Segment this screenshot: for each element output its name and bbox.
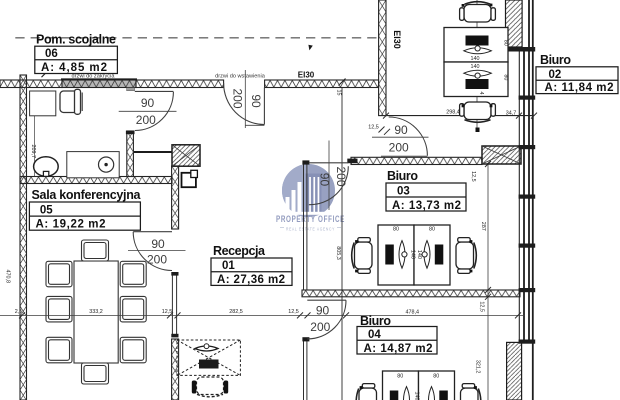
svg-text:A: 14,87 m2: A: 14,87 m2 bbox=[364, 343, 433, 355]
svg-text:333,2: 333,2 bbox=[89, 309, 103, 315]
svg-text:140: 140 bbox=[416, 250, 422, 259]
watermark logo PROPERTY OFFICE bbox=[276, 164, 345, 232]
dim ticks on main line bbox=[19, 312, 521, 318]
recepcja desk (dashed, to remove) bbox=[177, 340, 240, 375]
hatched column A (pom. socjalne) bbox=[172, 145, 200, 166]
svg-text:282,5: 282,5 bbox=[229, 309, 243, 315]
svg-text:Pom. scojalne: Pom. scojalne bbox=[36, 33, 116, 47]
svg-text:REAL ESTATE AGENCY: REAL ESTATE AGENCY bbox=[286, 227, 335, 232]
biuro02 desk pair bbox=[444, 28, 508, 63]
svg-text:drzwi do wstawienia: drzwi do wstawienia bbox=[215, 74, 266, 80]
ticks on biuro02 dim bbox=[383, 113, 537, 119]
grey door tab bbox=[127, 88, 135, 91]
corridor top door leaf bbox=[309, 162, 349, 164]
svg-text:12,5: 12,5 bbox=[368, 125, 379, 131]
dim line 209,7 bbox=[34, 116, 36, 177]
dim line pom door bbox=[119, 110, 177, 112]
biuro03 chair left bbox=[352, 238, 372, 274]
left wall bbox=[20, 75, 27, 400]
pom. socjalne right wall bbox=[127, 131, 134, 177]
svg-text:470,8: 470,8 bbox=[4, 269, 10, 283]
svg-text:80: 80 bbox=[503, 74, 509, 80]
tick top-left corner bbox=[42, 71, 48, 77]
biuro02 chair top bbox=[460, 2, 496, 22]
room label biuro02 bbox=[536, 53, 618, 94]
counter edge line (hall) bbox=[134, 151, 172, 153]
svg-text:200: 200 bbox=[389, 141, 409, 155]
svg-text:140: 140 bbox=[471, 64, 480, 70]
conference chairs top/bottom bbox=[82, 240, 109, 384]
svg-text:478,4: 478,4 bbox=[406, 310, 420, 316]
svg-text:287: 287 bbox=[480, 222, 486, 231]
hatched column D (bottom right) bbox=[507, 342, 522, 400]
biuro03 door ticks bbox=[379, 127, 391, 135]
svg-text:Biuro: Biuro bbox=[387, 169, 418, 183]
recepcja west wall upper bbox=[172, 166, 179, 229]
svg-text:04: 04 bbox=[368, 329, 381, 341]
top wall segment 4 bbox=[265, 80, 379, 88]
svg-text:A: 4,85 m2: A: 4,85 m2 bbox=[41, 62, 107, 74]
svg-text:200: 200 bbox=[310, 320, 330, 334]
conference chairs right bbox=[120, 261, 146, 363]
top wall segment 1 bbox=[0, 80, 62, 88]
glass partition left (sala/recepcja) bbox=[172, 275, 176, 335]
biuro04 monitors bbox=[390, 391, 399, 400]
recepcja chair (dashed) bbox=[197, 377, 224, 397]
svg-text:80: 80 bbox=[393, 226, 399, 232]
svg-text:01: 01 bbox=[222, 260, 235, 272]
svg-text:140: 140 bbox=[471, 56, 480, 62]
pom. socjalne bottom wall bbox=[20, 177, 172, 184]
pom. socjalne table bbox=[30, 91, 56, 116]
svg-text:209,7: 209,7 bbox=[30, 145, 36, 159]
desk dim texts biuro04 bbox=[397, 374, 439, 400]
main dim texts bbox=[15, 109, 517, 315]
biuro03 top wall bbox=[351, 157, 482, 164]
svg-text:EI30: EI30 bbox=[392, 30, 402, 49]
recepcja desk monitor bbox=[199, 360, 219, 369]
svg-text:EI30: EI30 bbox=[298, 71, 315, 80]
washbasin bbox=[34, 157, 59, 177]
biuro02 keyboards bbox=[464, 46, 492, 78]
svg-text:805,3: 805,3 bbox=[335, 246, 341, 260]
top door (drzwi do wstawienia): leaf bbox=[263, 88, 265, 125]
biuro02 chair bottom bbox=[460, 102, 496, 122]
trash bin (hall) bbox=[182, 173, 196, 187]
svg-text:Biuro: Biuro bbox=[540, 53, 571, 67]
biuro03 keyboards bbox=[399, 241, 430, 269]
svg-text:90: 90 bbox=[151, 237, 165, 251]
glass partition right lower bbox=[304, 339, 307, 400]
vertical wall/dim line x=342 bbox=[341, 88, 343, 400]
biuro04 door leaf bbox=[307, 299, 346, 301]
glass partition right (recepcja/biuro) upper bbox=[304, 165, 307, 291]
window mullions bbox=[506, 47, 536, 344]
svg-text:15: 15 bbox=[336, 90, 342, 96]
svg-text:drzwi do zakrycia: drzwi do zakrycia bbox=[72, 74, 116, 80]
biuro04 door arc bbox=[307, 300, 346, 339]
svg-text:4: 4 bbox=[478, 92, 484, 95]
room label pom. socjalne bbox=[35, 33, 118, 74]
dim line biuro03 door bbox=[372, 136, 429, 138]
svg-text:A: 19,22 m2: A: 19,22 m2 bbox=[36, 219, 106, 231]
svg-text:200: 200 bbox=[136, 113, 156, 127]
main horizontal dimension line bbox=[0, 314, 525, 316]
sala konferencyjna door leaf bbox=[133, 231, 172, 233]
svg-text:90: 90 bbox=[249, 94, 263, 108]
biuro03 door arc bbox=[389, 117, 428, 156]
pom. socjalne chair bbox=[60, 89, 82, 114]
dashed boundary line top bbox=[15, 37, 378, 39]
svg-text:80: 80 bbox=[433, 374, 439, 380]
chair caster nubs bbox=[355, 4, 492, 389]
biuro04 keyboards bbox=[404, 387, 435, 400]
svg-text:200: 200 bbox=[147, 253, 167, 267]
facade outer lines bbox=[528, 0, 530, 342]
biuro02 centerline bbox=[476, 0, 478, 128]
top wall segment 3 bbox=[136, 80, 224, 88]
sala konferencyjna door arc bbox=[133, 232, 172, 271]
biuro03 chair right bbox=[456, 238, 476, 274]
corridor top door arc bbox=[309, 166, 349, 205]
svg-text:12,5: 12,5 bbox=[162, 309, 173, 315]
svg-text:298,4: 298,4 bbox=[446, 109, 460, 115]
svg-text:200: 200 bbox=[334, 166, 348, 186]
svg-text:200: 200 bbox=[230, 88, 244, 108]
svg-text:A: 27,36 m2: A: 27,36 m2 bbox=[217, 274, 285, 286]
room label sala konferencyjna bbox=[29, 188, 141, 231]
top wall grey segment (covered door) bbox=[62, 80, 136, 88]
biuro03 door sill bbox=[381, 155, 427, 157]
conference chairs left bbox=[46, 261, 72, 363]
pom. socjalne door arc bbox=[135, 92, 174, 131]
vertical dimension line right (287 / 12,5 / 321,2) bbox=[487, 164, 489, 400]
north arrow mark bbox=[308, 45, 312, 51]
svg-text:Recepcja: Recepcja bbox=[213, 244, 266, 258]
biuro04 desk pair bbox=[383, 371, 419, 400]
desk dim texts biuro03 bbox=[393, 226, 435, 259]
biuro02 monitors bbox=[466, 36, 489, 46]
svg-text:A: 11,84 m2: A: 11,84 m2 bbox=[545, 82, 614, 94]
svg-text:90: 90 bbox=[141, 96, 155, 110]
recepcja desk keyboard bbox=[195, 346, 218, 351]
recepcja west wall lower bbox=[172, 339, 179, 400]
svg-text:05: 05 bbox=[40, 204, 53, 216]
svg-text:321,2: 321,2 bbox=[474, 360, 480, 374]
svg-text:A: 13,73 m2: A: 13,73 m2 bbox=[392, 200, 461, 212]
kitchen counter with sink bbox=[67, 152, 119, 178]
svg-text:140: 140 bbox=[414, 392, 420, 400]
svg-text:80: 80 bbox=[397, 374, 403, 380]
svg-text:12,5: 12,5 bbox=[479, 301, 485, 312]
biuro04 chair left bbox=[356, 384, 376, 400]
svg-text:Sala konferencyjna: Sala konferencyjna bbox=[32, 188, 142, 202]
dim line of corridor door bbox=[328, 141, 330, 211]
dim line of top door bbox=[244, 70, 246, 128]
svg-text:06: 06 bbox=[45, 48, 58, 60]
svg-text:34,7: 34,7 bbox=[506, 111, 517, 117]
svg-text:2,5: 2,5 bbox=[15, 309, 23, 315]
room label recepcja bbox=[211, 244, 292, 286]
window glazing lines east facade bbox=[518, 47, 520, 342]
EI30 fire wall bbox=[379, 0, 386, 116]
svg-text:90: 90 bbox=[394, 123, 408, 137]
dim line sala door bbox=[128, 250, 186, 252]
biuro03 monitors bbox=[385, 245, 394, 265]
rotated dim texts bbox=[4, 90, 486, 374]
svg-text:90: 90 bbox=[316, 304, 330, 318]
conference table bbox=[74, 261, 118, 363]
svg-text:12,5: 12,5 bbox=[470, 171, 476, 182]
tick at wall x=342 bbox=[339, 79, 346, 86]
svg-text:90: 90 bbox=[317, 173, 331, 187]
pom. socjalne door leaf bbox=[135, 90, 174, 92]
svg-text:03: 03 bbox=[397, 186, 410, 198]
room label biuro03 bbox=[386, 169, 466, 212]
svg-text:02: 02 bbox=[549, 69, 562, 81]
top door sill line bbox=[245, 124, 264, 126]
biuro03/04 dividing wall bbox=[302, 290, 520, 297]
svg-text:80: 80 bbox=[429, 226, 435, 232]
svg-text:PROPERTY OFFICE: PROPERTY OFFICE bbox=[276, 214, 345, 225]
biuro02 south wall line bbox=[386, 115, 534, 117]
biuro04 chair right bbox=[461, 384, 481, 400]
svg-text:80: 80 bbox=[503, 40, 509, 46]
hatched column B (biuro03 corner) bbox=[482, 146, 521, 164]
svg-text:140: 140 bbox=[409, 250, 415, 259]
biuro03 desk pair bbox=[378, 225, 414, 285]
svg-text:12,5: 12,5 bbox=[288, 309, 299, 315]
desk dim texts biuro02 bbox=[471, 40, 509, 95]
top door arc bbox=[224, 83, 265, 125]
hatched column C (top right) bbox=[506, 0, 523, 47]
room label biuro04 bbox=[357, 314, 437, 355]
